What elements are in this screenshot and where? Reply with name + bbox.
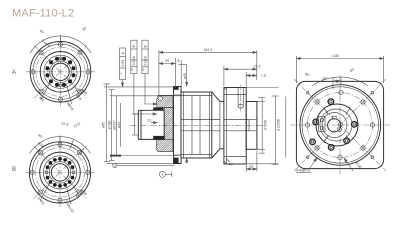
flange plate inner step top bbox=[174, 94, 182, 96]
bore dim vertical bbox=[134, 114, 136, 135]
output pilot boss bbox=[246, 102, 257, 150]
svg-text:ø61: ø61 bbox=[38, 96, 45, 103]
flange step circle view A bbox=[33, 44, 88, 99]
ext line boss bottom right bbox=[257, 148, 265, 150]
cone top bbox=[212, 92, 220, 101]
svg-text:A: A bbox=[12, 70, 16, 76]
flange step circle view B bbox=[32, 145, 88, 201]
diagonal centerline 2 right view bbox=[294, 79, 386, 171]
overall dim 162.3 line bbox=[159, 51, 257, 53]
dim 10 ext lines bbox=[245, 165, 247, 172]
center hole through flange bottom bbox=[224, 130, 249, 132]
svg-text:45°: 45° bbox=[349, 67, 356, 74]
clamp screw black bottom bbox=[153, 136, 165, 140]
svg-text:0.05: 0.05 bbox=[121, 60, 125, 67]
radial tick 12:00 view B bbox=[59, 135, 61, 147]
boss circle view B bbox=[40, 152, 81, 193]
angular dim arc view B bbox=[30, 137, 91, 154]
hub circle view B bbox=[49, 162, 71, 184]
outer circle view A bbox=[30, 42, 91, 103]
tolerance frame F3 bbox=[142, 40, 148, 73]
flange bolt hole bottom ellipse bbox=[238, 105, 243, 109]
svg-text:30°: 30° bbox=[81, 25, 88, 32]
svg-text:A: A bbox=[132, 56, 136, 59]
leader lower-right-1 view A bbox=[67, 84, 72, 104]
center bore view A bbox=[52, 63, 69, 80]
14 black screw dots view B bbox=[46, 157, 75, 188]
dim 29 ext bbox=[174, 58, 176, 88]
outer circle view B bbox=[29, 142, 90, 203]
dim 8 ext bbox=[180, 60, 182, 86]
ext line boss top right bbox=[257, 101, 265, 103]
up arrow on body bottom bbox=[186, 158, 188, 163]
leader lower-right-1 view B bbox=[66, 185, 71, 205]
svg-text:ø60h7: ø60h7 bbox=[112, 120, 116, 130]
diagonal centerline 135 view B bbox=[34, 146, 87, 199]
dim o45 vertical line bbox=[186, 65, 188, 87]
clamp boss left bbox=[319, 117, 326, 132]
svg-text:22.5°: 22.5° bbox=[61, 121, 70, 127]
hub middle ring bbox=[320, 109, 352, 141]
bolt circle (8 holes) view B bbox=[35, 148, 84, 197]
input bore top line bbox=[138, 109, 164, 111]
overall dim 162.3 ext left bbox=[158, 50, 160, 95]
output bore bbox=[328, 119, 341, 132]
motor flange plate bbox=[174, 87, 182, 164]
leader o130 lower right bbox=[344, 158, 353, 171]
dia dim line o70j6 bbox=[111, 90, 113, 161]
dim 29 line bbox=[159, 63, 176, 65]
angular dim arc view A bbox=[30, 36, 91, 53]
svg-text:45°: 45° bbox=[229, 163, 235, 167]
hub radial spokes bbox=[324, 107, 350, 142]
centerline horizontal right view bbox=[290, 124, 390, 126]
svg-text:8: 8 bbox=[178, 59, 180, 63]
screw bolt circle view B bbox=[47, 159, 74, 186]
clamp screw black top bbox=[153, 107, 163, 110]
svg-text:⊙: ⊙ bbox=[130, 68, 134, 71]
svg-text:8-ø6.6: 8-ø6.6 bbox=[40, 39, 50, 49]
tolerance frame F2 bbox=[131, 40, 137, 73]
ext line left top body bbox=[110, 95, 181, 97]
output flange inner vertical bbox=[226, 88, 228, 165]
dim 7.5 line bbox=[246, 75, 257, 77]
diagonal centerline 45 view B bbox=[34, 146, 87, 199]
tolerance frame F1 bbox=[120, 48, 126, 80]
centerline vertical view B bbox=[59, 138, 61, 207]
top dim o130 line bbox=[296, 58, 383, 60]
svg-text:27.5: 27.5 bbox=[254, 64, 261, 68]
keyway slot bbox=[332, 116, 336, 119]
flange chamfer bottom-left bbox=[224, 161, 227, 164]
overall dim 162.3 ext right bbox=[256, 50, 258, 80]
hub inner ring bbox=[322, 113, 347, 138]
leader lower-right-2 view A bbox=[75, 86, 80, 96]
svg-text:□130: □130 bbox=[331, 54, 339, 58]
body wall line bottom bbox=[181, 154, 212, 156]
dim 27.5 ext left bbox=[223, 66, 225, 86]
svg-text:10: 10 bbox=[249, 165, 253, 169]
flange bolt hole side walls bbox=[237, 88, 239, 107]
open hole bottom view A bbox=[59, 84, 62, 87]
svg-text:MAF-110-L2: MAF-110-L2 bbox=[12, 8, 74, 20]
svg-text:2-M6×8: 2-M6×8 bbox=[64, 99, 74, 111]
svg-text:ø70j6: ø70j6 bbox=[108, 121, 112, 130]
svg-text:⊙: ⊙ bbox=[141, 68, 145, 71]
ext line left bottom body bbox=[110, 155, 180, 157]
svg-text:B: B bbox=[132, 45, 136, 48]
svg-text:29: 29 bbox=[165, 59, 169, 63]
dim 28 small bbox=[333, 80, 341, 82]
radial tick 45 view B bbox=[77, 148, 84, 155]
svg-text:ø68: ø68 bbox=[81, 189, 88, 196]
cross ticks at outer holes view A bbox=[30, 41, 92, 103]
leader F1 bbox=[122, 80, 124, 87]
svg-text:ø85: ø85 bbox=[101, 122, 105, 128]
svg-text:28°: 28° bbox=[322, 77, 328, 81]
inner ring o125 bbox=[302, 87, 378, 163]
radial tick 22.5 view B bbox=[69, 139, 73, 150]
centerline vertical right view bbox=[339, 75, 341, 175]
svg-text:⊥: ⊥ bbox=[119, 71, 123, 75]
boss inner circle view B bbox=[43, 156, 76, 189]
svg-text:2-M6×12: 2-M6×12 bbox=[64, 200, 75, 214]
clamp screw bottom bbox=[320, 126, 323, 129]
clamp bore end face bbox=[163, 110, 165, 136]
leader 4-M8x9 bbox=[310, 158, 317, 169]
balloon 1 bbox=[165, 173, 172, 175]
svg-text:45°: 45° bbox=[38, 29, 45, 36]
ext line flange bottom right bbox=[247, 163, 279, 165]
svg-text:ø45: ø45 bbox=[183, 73, 187, 79]
svg-text:13: 13 bbox=[147, 119, 151, 123]
ext line flange top right bbox=[247, 87, 279, 89]
clamp bolt hole top circle bbox=[158, 97, 162, 101]
svg-text:ø44: ø44 bbox=[117, 122, 121, 128]
flange plate solid top end bbox=[174, 87, 179, 90]
centerline horizontal view A bbox=[26, 71, 95, 73]
dia dim line o85 bbox=[106, 84, 108, 162]
section centerline bbox=[130, 124, 264, 126]
body internal vertical 1 bbox=[183, 92, 185, 158]
svg-text:B: B bbox=[12, 167, 16, 173]
dim 10 line bbox=[246, 168, 257, 170]
dia dim line o44 bbox=[120, 103, 122, 147]
svg-text:22.5°: 22.5° bbox=[73, 121, 83, 129]
svg-text:ø110h8: ø110h8 bbox=[277, 119, 281, 131]
hub circle view A bbox=[50, 61, 72, 83]
input bore entrance lines bbox=[137, 110, 139, 139]
angular arc right view bbox=[313, 77, 368, 86]
svg-text:45°: 45° bbox=[37, 133, 44, 140]
boss inner circle view A bbox=[44, 55, 77, 88]
flange chamfer top-left bbox=[224, 88, 227, 91]
leader lower-right-2 view B bbox=[74, 186, 79, 196]
centerline horizontal view B bbox=[26, 171, 95, 173]
body internal vertical 4 bbox=[208, 92, 210, 158]
open hole left view B bbox=[45, 171, 48, 174]
right dia dim o110 bbox=[274, 96, 276, 164]
inscribed circle o130 bbox=[300, 85, 381, 166]
small holes and corner circles right view bbox=[305, 90, 374, 159]
centerline vertical view A bbox=[60, 37, 62, 106]
dim 7.5 ext bbox=[245, 72, 247, 86]
datum target black bar bbox=[110, 155, 121, 157]
output center hole top bbox=[249, 119, 257, 121]
center bore view B bbox=[51, 164, 68, 181]
leader lower-left view B bbox=[40, 182, 50, 200]
clamp coupling hatched section bottom bbox=[156, 140, 173, 152]
cross ticks at outer holes view B bbox=[29, 141, 91, 203]
square flange outline bbox=[296, 81, 383, 168]
output center hole back bbox=[248, 120, 250, 131]
hub outer ring bbox=[316, 104, 358, 146]
leader F2 bbox=[134, 74, 157, 114]
datum balloon B bottom bbox=[117, 164, 174, 166]
output flange inner line bottom bbox=[224, 156, 246, 158]
gear bore bottom bbox=[181, 130, 220, 132]
dim 13 arrow bbox=[151, 122, 158, 124]
neck bottom bbox=[220, 148, 224, 150]
flange bolt centerline bbox=[240, 85, 242, 113]
screw bolt circle view A bbox=[47, 58, 74, 85]
center hole through flange top bbox=[224, 119, 249, 121]
open hole top view A bbox=[59, 57, 62, 60]
gear bore top bbox=[181, 119, 220, 121]
right dia dim o48 bbox=[261, 98, 263, 154]
gearbox body outline bbox=[181, 92, 212, 158]
svg-text:162.3: 162.3 bbox=[204, 48, 213, 52]
open hole right view B bbox=[72, 171, 75, 174]
ext line left top flange bbox=[104, 86, 174, 88]
ext line left bottom flange bbox=[107, 162, 174, 164]
dim 27.5 line bbox=[224, 68, 257, 70]
body internal vertical 2 bbox=[191, 96, 193, 155]
svg-text:45°: 45° bbox=[304, 72, 311, 79]
radial tick 12:00 view A bbox=[60, 35, 62, 47]
clamp screw top bbox=[320, 118, 323, 121]
svg-text:0.03: 0.03 bbox=[143, 59, 147, 66]
diagonal centerline right view bbox=[294, 79, 386, 171]
flange plate solid bottom end bbox=[174, 158, 179, 164]
svg-text:B: B bbox=[143, 45, 147, 48]
diagonal centerline 45 view A bbox=[34, 45, 87, 98]
12 black screw dots view A bbox=[45, 57, 75, 87]
bolt hole cross ticks right view bbox=[304, 89, 377, 162]
boss circle view A bbox=[40, 52, 81, 93]
output center hole bottom bbox=[249, 130, 257, 132]
clamp coupling hatched section right sliver bbox=[164, 108, 173, 140]
leader lower-left view A bbox=[41, 82, 51, 100]
leader F3 bbox=[145, 74, 157, 104]
small hole pair 2 bbox=[338, 128, 342, 132]
diagonal centerline 135 view A bbox=[34, 45, 87, 98]
flange plate inner step bottom bbox=[174, 154, 182, 156]
small hole pair 1 bbox=[338, 123, 342, 127]
svg-text:4-M8×9: 4-M8×9 bbox=[296, 168, 310, 173]
body internal vertical 3 bbox=[199, 96, 201, 155]
svg-text:2-ø11: 2-ø11 bbox=[37, 196, 46, 205]
svg-text:1: 1 bbox=[161, 173, 163, 177]
svg-text:7.5: 7.5 bbox=[261, 74, 266, 78]
neck vertical bbox=[219, 101, 221, 148]
body wall line top bbox=[181, 95, 212, 97]
top dim o130 ext left bbox=[295, 56, 297, 83]
svg-text:3: 3 bbox=[114, 164, 116, 168]
bolt circle (8 holes) view A bbox=[36, 47, 85, 96]
dia dim line o60 bbox=[115, 96, 117, 154]
svg-text:A: A bbox=[121, 52, 125, 55]
top dim o130 ext right bbox=[383, 56, 385, 83]
svg-text:ø70h6: ø70h6 bbox=[264, 120, 268, 130]
8 outer small holes view B bbox=[30, 143, 90, 203]
neck top bbox=[220, 100, 224, 102]
bolt circle dash right view bbox=[308, 93, 373, 158]
svg-text:ø68: ø68 bbox=[81, 88, 88, 95]
input bore bottom line bbox=[138, 138, 164, 140]
clamp coupling hatched section top bbox=[156, 95, 172, 107]
svg-text:0.03: 0.03 bbox=[132, 59, 136, 66]
cone bottom bbox=[212, 149, 220, 158]
right dia dim o130b bbox=[285, 97, 287, 158]
8 outer small holes view A bbox=[31, 42, 90, 101]
svg-text:A: A bbox=[143, 56, 147, 59]
output flange bbox=[224, 88, 246, 165]
output flange inner line top bbox=[224, 94, 246, 96]
chamfer leader bbox=[226, 159, 230, 163]
carrier bolt holes right view bbox=[310, 99, 357, 150]
